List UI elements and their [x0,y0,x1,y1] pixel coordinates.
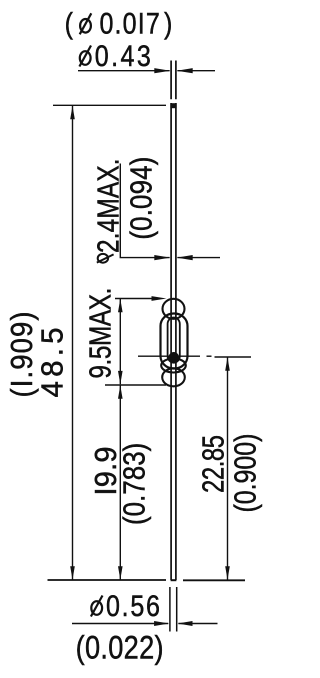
svg-text:22.85: 22.85 [196,435,231,493]
svg-text:(0.022): (0.022) [76,630,164,666]
svg-text:(: ( [65,7,73,40]
wire top cap [170,103,176,108]
dimension text (0.022) [76,630,164,666]
svg-text:48.5: 48.5 [36,327,70,397]
dimension text (0.094) rotated [123,157,157,240]
bottom datum line [48,579,167,581]
svg-text:): ) [164,7,172,40]
dimension text 48.5 rotated [36,327,70,397]
leader phi2.4MAX [120,164,169,258]
phi symbol of phi2.4MAX (rotated) [97,254,114,263]
dimension line 19.9 [119,385,121,579]
body: junction blob [168,352,179,364]
dimension text (phi0.017) [65,7,73,40]
wire top segment (lead above break) [171,61,176,100]
extension line top of body (9.5MAX top) [115,298,160,300]
extension line bottom of body [105,384,166,386]
phi0.56 extension lines below wire [170,587,177,632]
svg-text:2.4MAX.: 2.4MAX. [91,158,125,253]
svg-text:(0.783): (0.783) [116,443,150,525]
dimension text (0.900) rotated [228,434,262,513]
svg-text:0.0I7: 0.0I7 [100,7,160,40]
body: inner slug [168,318,180,363]
svg-text:0.56: 0.56 [106,589,160,622]
dimension line 48.5 [72,106,74,580]
body: bottom bead B [162,368,185,386]
svg-text:0.43: 0.43 [95,39,151,72]
body: top bead [163,299,185,319]
body: main capsule [161,314,188,369]
dimension line phi0.56 [72,623,168,625]
svg-text:(0.094): (0.094) [123,157,157,240]
extension line top of 48.5 [53,104,166,106]
svg-text:9.5MAX.: 9.5MAX. [83,288,117,379]
dimension text 2.4MAX. (rotated) [91,158,125,253]
svg-text:(0.900): (0.900) [228,434,262,513]
dimension line 9.5MAX [119,299,121,385]
dimension text (0.783) rotated [116,443,150,525]
dimension line 22.85 [227,357,229,579]
center line (dash-dot) [138,355,200,357]
dimension text phi0.43 [79,46,91,67]
dimension text 9.5MAX. rotated [83,288,117,379]
phi symbol of phi0.56 [91,596,103,617]
dimension text (1.909) rotated [6,311,40,397]
wire main lead [171,103,176,580]
dimension line phi0.43 [78,70,170,72]
body: bottom bead A [161,359,186,373]
dimension text 0.56 [106,589,160,622]
phi symbol of (phi0.017) [80,13,92,34]
dimension text 22.85 rotated [196,435,231,493]
dimension text 19.9 rotated [89,446,123,495]
wire bottom cap [171,579,177,581]
